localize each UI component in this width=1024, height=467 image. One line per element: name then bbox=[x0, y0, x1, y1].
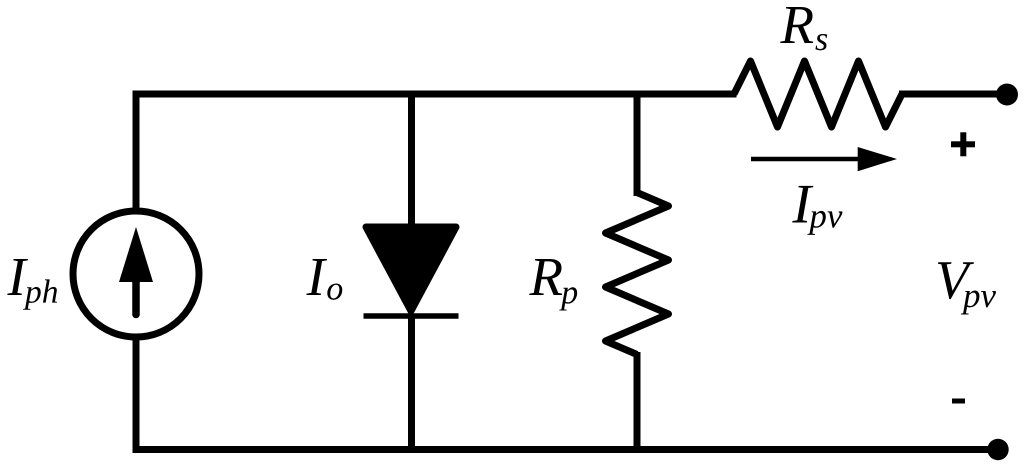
wire R_p branch upper bbox=[634, 91, 641, 197]
wire top rail right bbox=[899, 91, 1007, 98]
resistor R_p zigzag bbox=[606, 193, 669, 355]
label I_ph bbox=[7, 259, 57, 310]
current source I_ph circle bbox=[73, 211, 199, 337]
label I_o bbox=[306, 259, 342, 300]
wire top rail left bbox=[136, 94, 737, 212]
wire bottom rail bbox=[136, 337, 998, 450]
resistor R_s zigzag bbox=[734, 61, 902, 127]
label V_pv bbox=[938, 262, 996, 314]
wire diode branch upper bbox=[408, 91, 415, 229]
current source arrow bbox=[119, 227, 153, 315]
diode anode triangle bbox=[366, 227, 456, 311]
diode cathode bar bbox=[364, 313, 459, 319]
plus sign bbox=[951, 132, 975, 156]
node terminal top dot bbox=[996, 84, 1018, 106]
wire R_p branch lower bbox=[634, 352, 641, 446]
label R_s bbox=[780, 7, 827, 50]
label R_p bbox=[529, 259, 577, 311]
node terminal bottom dot bbox=[987, 439, 1008, 460]
arrow I_pv current direction bbox=[751, 147, 897, 171]
wire diode branch lower bbox=[408, 316, 415, 446]
minus sign bbox=[952, 399, 965, 404]
label I_pv bbox=[792, 186, 842, 235]
